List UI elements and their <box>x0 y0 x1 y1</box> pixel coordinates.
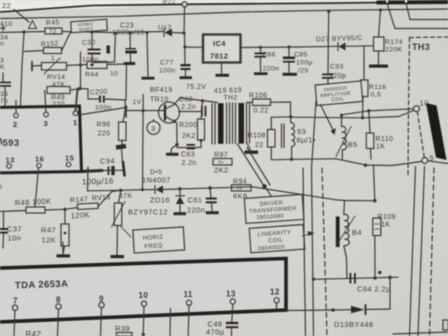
wire pointer from 410 label to triangle <box>14 10 29 23</box>
label R152 <box>41 41 59 49</box>
label 2K2 <box>182 133 196 140</box>
label LINEARITY <box>258 230 292 238</box>
node junction dot x80 y65 <box>79 63 82 66</box>
label R147 <box>70 196 89 204</box>
label TR10 <box>150 97 169 104</box>
label COIL of amplitude <box>331 96 344 103</box>
node junction dot C94 left <box>86 169 89 172</box>
node connector pin circle A on thick bus <box>385 0 389 3</box>
label 2.2n of C63 <box>182 160 197 167</box>
svg-text:100µ/16: 100µ/16 <box>82 176 114 186</box>
wire dashed between pin10 and pin5 <box>417 112 424 158</box>
wire box corner to D13 row <box>288 309 333 312</box>
svg-text:R110: R110 <box>376 136 394 143</box>
wire emitter down <box>176 123 178 145</box>
wire vertical x126 down to base node <box>125 64 128 100</box>
ground bar under transformer <box>245 151 259 154</box>
wire pin16 down to R48 row <box>35 168 39 207</box>
svg-text:BF419: BF419 <box>150 87 173 94</box>
svg-text:RV14: RV14 <box>47 74 65 81</box>
label C23 <box>120 23 134 30</box>
svg-text:1: 1 <box>51 55 55 62</box>
wire driver node into callout box <box>265 186 272 195</box>
label pin 12 <box>270 288 280 297</box>
transistor TR10 emitter lead with arrow <box>165 116 177 123</box>
pot RV13 arrow <box>112 202 126 228</box>
wire R110 top stub <box>369 111 370 133</box>
svg-text:12: 12 <box>270 288 280 297</box>
wire long vertical right A <box>410 167 416 336</box>
resistor RV14 body <box>42 63 67 71</box>
wire R48 left lead <box>0 211 26 212</box>
capacitor C200 plates vertical on wire <box>99 96 105 103</box>
capacitor C30 top lead <box>91 32 93 49</box>
wire second link to pin10 <box>291 111 414 118</box>
svg-text:C37: C37 <box>7 225 22 234</box>
resistor R114 body <box>374 37 385 51</box>
svg-text:7n: 7n <box>0 98 8 105</box>
resistor R48 body <box>26 207 45 213</box>
wire top bus line 1 thick right portion <box>378 0 448 5</box>
wire node row y33 <box>112 32 164 33</box>
wire base node to R96 top <box>123 108 126 123</box>
wire diode to riser <box>172 32 184 35</box>
node junction dot IC4 input tap <box>183 45 186 48</box>
transistor TR10 base bar <box>164 106 166 120</box>
svg-text:R44: R44 <box>85 72 99 79</box>
label pin 2 <box>13 120 18 129</box>
label D27 BYV95/C <box>316 35 363 44</box>
wire top link row R108-coil93 <box>271 116 291 119</box>
resistor R47 body <box>61 224 69 246</box>
callout linearity coil box <box>249 225 305 253</box>
wire arrow linearity box to B4 <box>302 231 315 236</box>
wire bottom row coil93 to B5 net <box>271 159 336 160</box>
label pin 7 <box>13 297 18 306</box>
node junction dot C64 row left <box>312 278 315 281</box>
wire pin11 down <box>187 305 190 336</box>
capacitor C30 plates <box>88 49 101 55</box>
label 22 of R108 <box>255 142 264 149</box>
svg-text:C61: C61 <box>188 196 203 205</box>
callout HORIZ FREQ box <box>133 227 185 253</box>
wire R47 bottom to ground <box>63 246 65 254</box>
label 2K2 of R97 <box>214 166 229 175</box>
node junction dot coil93 top <box>289 115 292 118</box>
svg-text:100n: 100n <box>159 68 176 75</box>
wire D13 row <box>333 309 351 311</box>
label 28010080 <box>256 213 284 221</box>
node junction dot C23a tap <box>128 31 131 34</box>
resistor R45 body <box>45 28 62 34</box>
node junction dot C61 tap <box>208 186 211 189</box>
capacitor C86 plates <box>255 53 267 58</box>
svg-text:593: 593 <box>3 138 20 149</box>
wire R49 right lead to pin1 riser <box>70 89 80 90</box>
wire B5 bottom stub <box>341 150 343 159</box>
wire C37 lower stub <box>2 234 5 248</box>
label TH2 <box>224 95 238 102</box>
svg-text:35: 35 <box>0 91 8 98</box>
svg-text:410: 410 <box>0 21 13 28</box>
svg-text:R109: R109 <box>378 214 396 221</box>
wire pin10b down <box>142 306 145 334</box>
label 3 in circle <box>151 124 156 133</box>
pin 10b circle <box>141 301 146 306</box>
capacitor C86 lower lead <box>260 58 262 72</box>
pin 15 circle <box>66 162 71 167</box>
svg-text:IC4: IC4 <box>213 39 226 48</box>
inductor B4 loops <box>344 214 349 245</box>
svg-text:R96: R96 <box>97 122 111 129</box>
capacitor C30 bottom lead <box>91 55 93 66</box>
svg-text:8: 8 <box>56 296 61 305</box>
node junction dot ZD16 tap <box>178 187 181 190</box>
resistor R44 body <box>87 62 107 69</box>
callout amplitude coil box <box>315 81 363 105</box>
label 220n of C61 <box>187 206 205 215</box>
label 1 under R152 <box>51 55 55 62</box>
label 120K <box>71 210 91 220</box>
capacitor C23 lower lead to ground <box>130 54 132 63</box>
svg-text:P22: P22 <box>163 0 176 6</box>
transistor TR10 circle <box>159 102 180 123</box>
svg-text:C63: C63 <box>181 152 195 159</box>
label ZD16 <box>150 196 170 205</box>
label 220 of R96 <box>98 131 111 138</box>
label R94 <box>233 179 247 186</box>
label HORIZ <box>143 234 164 241</box>
wire R108 top stub <box>270 117 272 129</box>
wire pin8 down <box>58 309 59 336</box>
label C85 <box>294 52 308 59</box>
svg-text:22: 22 <box>2 1 11 10</box>
label R116 <box>369 84 386 91</box>
svg-text:5: 5 <box>0 184 2 191</box>
label D13BY448 <box>334 320 373 329</box>
label 220K <box>385 47 403 54</box>
ground bar under emitter <box>166 153 179 156</box>
label 13 pin <box>6 156 15 165</box>
wire left edge vertical to C35 <box>2 73 4 82</box>
pin 9 circle <box>99 302 104 307</box>
diode D15 symbol <box>155 186 163 194</box>
svg-text:13: 13 <box>6 156 15 165</box>
svg-text:TDA 2653A: TDA 2653A <box>15 279 69 292</box>
pin 2 circle <box>14 113 19 118</box>
wire pin13b down <box>232 304 233 321</box>
wire top bus line 1 <box>0 2 448 12</box>
node junction dot x115 tap <box>114 32 117 35</box>
wire vertical x80 from C30 row down to pin1 net <box>80 52 82 89</box>
waveform box VI of R97 <box>213 159 232 166</box>
node junction dot C64 b <box>388 276 392 280</box>
node junction dot zener row-x143 <box>141 188 144 191</box>
label 47K of RV13 <box>119 193 133 201</box>
label 100n under C200 <box>95 105 112 112</box>
wire main row y32 left segment <box>0 32 45 33</box>
svg-text:72: 72 <box>49 30 57 36</box>
wire IC4 ground lead <box>221 63 223 74</box>
label C62 <box>179 97 193 104</box>
node junction dot C30 tap <box>90 30 93 33</box>
wire C94 row <box>88 169 123 171</box>
label IC4 <box>213 39 226 48</box>
label 5 pin right <box>430 154 435 163</box>
label 72 <box>49 30 57 36</box>
label 0.22 <box>254 108 269 115</box>
svg-text:2.2n: 2.2n <box>181 104 196 111</box>
resistor R152 body <box>44 48 62 54</box>
label TRANSFORMER <box>249 206 297 215</box>
label IV in box <box>237 186 243 192</box>
capacitor C63 plates <box>187 144 196 149</box>
label fragment right edge <box>443 320 448 330</box>
wire R147 to RV13 riser <box>98 190 121 206</box>
tick before 593 <box>1 139 2 145</box>
resistor R106 body <box>253 99 271 106</box>
wire long vertical connector line 1 <box>303 168 306 336</box>
wire base lead <box>127 110 164 112</box>
wire C85 to D27 <box>296 45 339 48</box>
wire pin3 riser to R49 left <box>45 91 47 113</box>
svg-text:COIL: COIL <box>331 96 344 103</box>
wire C93 bottom into amplitude box area <box>327 79 329 85</box>
svg-text:220n: 220n <box>187 206 205 215</box>
ground bar under ZD16 <box>174 212 187 215</box>
svg-text:R45: R45 <box>46 19 60 27</box>
diode U17 1N4007 symbol on wire <box>164 29 172 37</box>
label 1K of R109 <box>381 222 390 229</box>
svg-text:2K2: 2K2 <box>182 133 196 140</box>
svg-text:BZY97C12: BZY97C12 <box>128 208 168 217</box>
svg-text:1K: 1K <box>381 222 390 229</box>
wire dashed TH3 top border <box>410 36 448 39</box>
label 6K8 <box>233 192 248 201</box>
label 15 pin <box>65 154 74 163</box>
label B5 <box>348 140 358 149</box>
label 0,5 <box>371 92 382 99</box>
label D15 <box>150 169 162 176</box>
wire R47 top stub <box>64 209 66 224</box>
wire pin2 riser stub <box>15 101 17 114</box>
label R106 <box>249 93 267 100</box>
wire long vertical right B <box>418 167 425 336</box>
wire R200 top stub <box>200 117 202 120</box>
pot RV13 body vertical <box>114 203 122 226</box>
capacitor C23 plates <box>125 48 136 54</box>
svg-text:C93: C93 <box>330 64 344 71</box>
resistor R110 body <box>366 133 374 149</box>
wire D13 row right to C64 net <box>367 277 391 309</box>
capacitor C93 lead from bus line2 <box>327 12 330 74</box>
wire R48 to R147 <box>45 208 78 211</box>
ground bar under C23 <box>124 62 136 65</box>
label R42 <box>26 330 42 336</box>
pot arrow through B5 <box>336 127 351 157</box>
wire C85 leads <box>288 47 290 73</box>
resistor R147 body <box>77 203 98 210</box>
ground bar under R114 <box>369 65 388 68</box>
label R114 <box>385 39 403 46</box>
capacitor C85 electrolytic plates <box>283 57 295 63</box>
wire R116 riser from D27 net <box>363 46 365 80</box>
wire R116 bottom to main row <box>362 97 365 118</box>
label 100n of C77 <box>159 68 176 75</box>
wire R44 right lead <box>107 63 127 66</box>
paper top edge highlight <box>0 0 448 13</box>
label 47K <box>52 82 65 89</box>
pin 3 circle <box>44 112 49 117</box>
capacitor under pin13b plates <box>226 322 239 328</box>
node junction dot coil93 bottom <box>290 158 293 161</box>
svg-text:12K: 12K <box>42 236 57 245</box>
ground stem left above TDA <box>62 242 64 254</box>
node junction dot x24 on row y32 <box>22 30 25 33</box>
svg-text:10: 10 <box>139 291 149 300</box>
wire B4 top rail <box>345 200 375 202</box>
capacitor C77 plates <box>181 64 191 70</box>
label R108 <box>248 133 266 140</box>
wire pin12 down and right <box>275 303 277 310</box>
ground bar under C86 <box>254 72 268 75</box>
label C30 <box>82 39 96 47</box>
callout HORIZ SHIFT box <box>71 19 108 32</box>
svg-text:7: 7 <box>13 297 18 306</box>
label VI in box <box>218 160 224 166</box>
label 93 <box>297 127 306 136</box>
capacitor C37 plates <box>0 228 8 234</box>
inductor coil 93 core lines <box>282 124 285 148</box>
wire riser to C77 <box>184 33 187 64</box>
inductor coil 93 loops <box>291 122 295 146</box>
svg-text:R48 100K: R48 100K <box>15 197 52 208</box>
label 1V test point <box>133 99 142 106</box>
wire B4 top lead <box>343 201 346 215</box>
label 100n under C30 <box>82 57 99 64</box>
label C63 <box>181 152 195 159</box>
wire zener row to B4 top rail <box>252 187 345 201</box>
warning triangle symbol <box>29 21 37 29</box>
pin 1 circle <box>73 111 78 116</box>
wire pointer RV13 to horizfreq <box>120 226 131 238</box>
wire R108 bottom stub <box>270 147 272 160</box>
label R49 <box>51 95 65 102</box>
zener ZD16 symbol vertical <box>176 189 185 212</box>
label FREQ <box>144 243 163 250</box>
label 8u/1 <box>297 136 316 145</box>
wire top bus line 2 <box>0 9 448 19</box>
label 7812 <box>210 52 228 61</box>
wire C94 feeder vertical x88 <box>87 167 90 191</box>
node junction dot C64 c <box>378 271 382 275</box>
label 593 <box>3 138 20 149</box>
label R47 <box>41 226 56 235</box>
ground bar R47 <box>57 254 71 257</box>
wire coil93 top stub <box>290 117 292 123</box>
transformer T driver winding lines <box>212 103 250 145</box>
capacitor C94 plates vertical <box>108 166 115 175</box>
wire R200 bottom to emitter row <box>188 140 201 148</box>
svg-text:220: 220 <box>52 102 65 109</box>
terminal mark left edge <box>0 26 5 31</box>
label R45 <box>46 19 60 27</box>
svg-text:ZD16: ZD16 <box>150 196 170 205</box>
node junction dot R200 bottom <box>199 139 202 142</box>
wire long vertical connector line 2 <box>312 101 317 336</box>
svg-text:D13BY448: D13BY448 <box>334 320 373 329</box>
capacitor C86 lead <box>260 47 262 52</box>
svg-text:/25: /25 <box>298 68 309 75</box>
svg-text:2.2n: 2.2n <box>182 160 197 167</box>
node junction dot B4 top <box>373 199 377 203</box>
ground bar under C85 <box>283 73 298 76</box>
node junction dot collector C62 tap <box>201 99 204 102</box>
svg-text:11: 11 <box>184 290 193 299</box>
svg-text:7812: 7812 <box>210 52 228 61</box>
wire bottom row B5-R110-pin5 <box>336 159 422 166</box>
wire C61 to ground <box>211 203 214 211</box>
node junction dot bottom row <box>364 164 367 167</box>
svg-text:TH2: TH2 <box>224 95 238 102</box>
wire row y32 mid segment to C30 tap <box>62 32 112 33</box>
label R39 <box>115 324 130 333</box>
wire transformer bottom right to ground <box>247 143 251 150</box>
ground bar RV13 <box>111 255 125 258</box>
svg-text:75.2V: 75.2V <box>186 84 206 91</box>
wire RV14 to R44 <box>67 65 88 66</box>
wire pin9 down <box>101 308 102 336</box>
label fragment bottom-left edge <box>0 324 1 333</box>
label B4 <box>352 228 362 237</box>
svg-text:10n: 10n <box>8 234 22 243</box>
svg-text:1K: 1K <box>376 144 385 151</box>
label COIL of linearity <box>268 237 284 244</box>
capacitor aux plate bar x108 <box>107 46 110 54</box>
label BF419 <box>150 87 173 94</box>
wire L from x115 down-left <box>93 33 115 62</box>
label C64 2.2u <box>357 285 391 294</box>
node junction dot C23b tap <box>145 31 148 34</box>
label R44 10 <box>85 71 118 79</box>
label 22 top-left corner <box>2 1 11 10</box>
svg-text:TH3: TH3 <box>412 42 430 52</box>
transformer T core bar left <box>218 103 224 144</box>
pin 10 circle <box>414 106 420 112</box>
node junction dot driver node <box>262 184 266 188</box>
ground bar under second tap <box>142 77 155 80</box>
node junction dot riser-bus2 <box>379 8 382 11</box>
svg-text:100µ: 100µ <box>296 60 313 67</box>
label 470u <box>206 328 225 336</box>
label 410 <box>0 21 13 28</box>
wire horizontal y190 feeder to RV13 <box>88 189 121 192</box>
svg-text:R42: R42 <box>26 330 42 336</box>
wire diag transformer to driver node 2 <box>247 148 270 186</box>
label C86 <box>262 52 276 59</box>
svg-text:FREQ: FREQ <box>144 243 163 250</box>
label TH3 <box>412 42 430 52</box>
label RV14 <box>47 74 65 81</box>
ground bar under C61 <box>206 211 219 214</box>
label BZY97C12 <box>128 208 168 217</box>
svg-text:13: 13 <box>226 290 236 299</box>
pin 16 circle <box>37 163 42 168</box>
wire emitter row to C63 <box>177 145 187 148</box>
wire vertical riser from P22 down <box>183 7 186 33</box>
label 10n <box>8 234 22 243</box>
waveform ref circle 3 <box>147 119 160 134</box>
